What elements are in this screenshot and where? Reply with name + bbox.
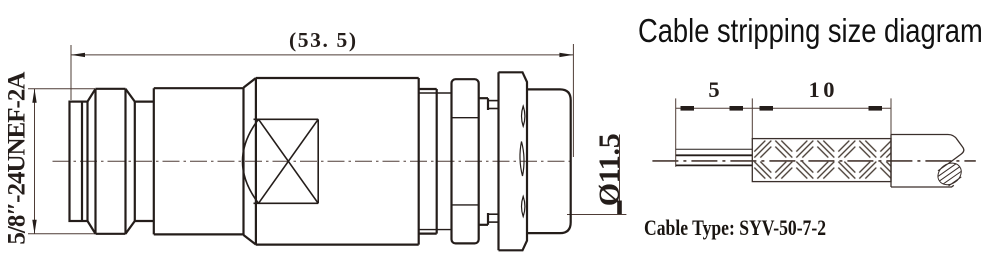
svg-text:(53. 5): (53. 5) xyxy=(289,28,356,52)
svg-text:Ø11.5: Ø11.5 xyxy=(593,133,626,206)
svg-text:5: 5 xyxy=(708,77,719,102)
svg-text:5/8″-24UNEF-2A: 5/8″-24UNEF-2A xyxy=(3,72,30,245)
svg-text:10: 10 xyxy=(809,77,835,102)
